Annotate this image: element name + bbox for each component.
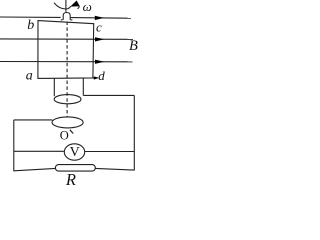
voltmeter V1 body xyxy=(64,144,84,160)
bearing foot right xyxy=(71,19,73,21)
svg-text:O: O xyxy=(60,129,69,143)
rotation arrowhead xyxy=(70,1,80,7)
O-prime tick xyxy=(70,130,73,134)
svg-text:ω: ω xyxy=(83,0,92,14)
slip ring 2 xyxy=(52,117,83,128)
brush wire right xyxy=(83,94,134,96)
field line B1 (left of bearing) xyxy=(0,16,61,18)
field line B1 (right of bearing) xyxy=(71,17,131,20)
voltmeter row wire left xyxy=(14,150,65,152)
left rail xyxy=(13,120,15,171)
rotation arrow tail xyxy=(78,6,80,9)
resistor R body xyxy=(55,165,95,172)
slip ring 1 xyxy=(54,95,81,104)
svg-text:c: c xyxy=(96,20,102,35)
svg-text:b: b xyxy=(27,18,34,33)
svg-text:d: d xyxy=(98,68,105,83)
svg-text:B: B xyxy=(129,38,138,54)
coil lead wire right xyxy=(82,78,84,95)
resistor row wire left xyxy=(14,168,56,170)
coil lead wire left xyxy=(53,78,55,96)
bottom edge extension near d xyxy=(93,77,95,79)
coil loop abcd xyxy=(38,21,94,79)
right rail xyxy=(133,95,135,170)
current arrow near d xyxy=(94,76,99,79)
field arrow 2 xyxy=(95,37,104,41)
field arrow 3 xyxy=(95,60,104,64)
brush wire left xyxy=(14,119,53,121)
field line B3 xyxy=(0,61,133,63)
resistor row wire right xyxy=(95,168,134,170)
bearing arch xyxy=(63,13,70,20)
svg-text:R: R xyxy=(65,170,76,186)
rotation arrow arc xyxy=(54,3,71,9)
axle stub O xyxy=(65,0,67,12)
svg-text:a: a xyxy=(26,69,33,84)
svg-text:V: V xyxy=(70,145,80,160)
rotation axis (dashed) xyxy=(66,22,68,118)
voltmeter row wire right xyxy=(85,151,135,153)
field line B2 xyxy=(0,38,133,40)
field arrow 1 xyxy=(95,16,104,20)
bearing foot left xyxy=(61,19,63,21)
